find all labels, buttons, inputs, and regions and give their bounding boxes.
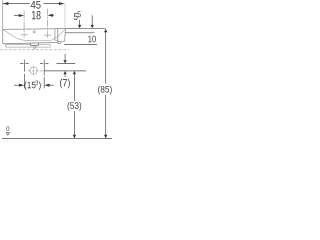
dimension (15.3) arrow left tail (14, 84, 20, 86)
dimension 5.5 arrow 1 (79, 20, 81, 25)
tap deck level line (65, 32, 95, 34)
dimension 5.5 arrow 2 (91, 15, 93, 25)
dimension (7) label (60, 79, 70, 89)
LABELS (6, 1, 111, 131)
tap hole cross right (44, 34, 51, 36)
side profile inner line (58, 30, 65, 37)
dimension (85) bottom arrow (104, 135, 107, 138)
extension line right (wall side) (64, 3, 66, 28)
dimension 45 line (3, 3, 60, 5)
dimension (53) top arrow (73, 71, 76, 74)
tap hole centerline left (23, 11, 25, 38)
dimension (15.3) label open (25, 81, 36, 90)
dimension (15.3) arrow right tail (49, 84, 54, 86)
dimension (7) bottom arrow (63, 71, 66, 74)
drain connection circle (30, 67, 37, 74)
dimension (85) label (98, 86, 112, 95)
water supply cross right (40, 60, 49, 89)
washbasin front view outline (3, 29, 58, 44)
side profile outline (55, 29, 65, 44)
dimension (85) line upper (105, 32, 107, 84)
tap hole cross left (21, 34, 28, 36)
floor line (2, 137, 112, 139)
towel rail bar (5, 45, 50, 48)
dimension 45 arrow left (3, 2, 9, 5)
dimension 18 arrow right (48, 14, 53, 17)
dimension (53) line lower (73, 111, 75, 139)
dimension 18 label (32, 11, 41, 20)
dimension 18 arrow right tail (52, 14, 54, 16)
level zero label (6, 126, 9, 130)
supply level line (57, 63, 76, 65)
dimension (85) line lower (105, 95, 107, 139)
dimension (15.3) label superscript (35, 80, 38, 85)
drain level line (44, 70, 86, 72)
drain pipe stub (34, 46, 35, 50)
dimension (85) top arrow (104, 29, 107, 32)
basin bottom level line (64, 44, 97, 46)
drain connection vertical centerline (33, 66, 35, 75)
washbasin front view inner bowl line (3, 30, 58, 41)
dimension 18 arrow left (19, 14, 24, 17)
dimension 18 arrow left tail (14, 15, 20, 17)
washbasin top rim edge (front and side) (3, 28, 66, 31)
tap hole centerline right (47, 9, 49, 38)
dimension (15.3) arrow right (44, 84, 49, 87)
level zero triangle (6, 132, 9, 135)
dimension 10 label (88, 36, 96, 43)
drain fitting below basin (31, 43, 39, 46)
dimension (15.3) arrow left (19, 84, 24, 87)
overflow hole circle (33, 31, 35, 33)
dimension (53) bottom arrow (73, 135, 76, 138)
dimension (15.3) label close (39, 81, 41, 90)
dimension 45 arrow right (59, 2, 65, 5)
dimension (53) line upper (73, 74, 75, 101)
rim level line (65, 28, 105, 30)
dashed reference line below basin (0, 49, 69, 51)
dimension (7) top arrow (64, 54, 66, 60)
drain level line dashed part (28, 70, 44, 72)
dimension (53) label (68, 102, 82, 111)
dimension 45 label (31, 1, 41, 9)
extension line left edge (2, 0, 4, 29)
water supply cross left (20, 60, 29, 89)
dimension 5.5 label main (74, 13, 78, 20)
dimension 5.5 label superscript (77, 11, 80, 17)
